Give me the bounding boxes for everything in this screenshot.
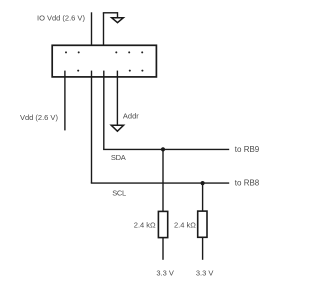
wire pin 4 top to ground xyxy=(103,12,118,52)
wire SDA junction to R1 xyxy=(162,149,164,211)
resistor R2 xyxy=(198,211,207,237)
label 3.3 V left xyxy=(156,269,174,278)
label 2.4 kOhm R1 xyxy=(134,221,156,230)
svg-text:Vdd (2.6 V): Vdd (2.6 V) xyxy=(20,113,58,122)
wire Addr (pin 5 bottom) xyxy=(116,71,118,126)
net label IO Vdd xyxy=(37,13,85,22)
label 2.4 kOhm R2 xyxy=(174,221,196,230)
svg-text:to RB9: to RB9 xyxy=(235,145,260,154)
resistor R1 xyxy=(158,211,167,237)
svg-text:to RB8: to RB8 xyxy=(235,179,260,188)
svg-text:2.4 kΩ: 2.4 kΩ xyxy=(134,221,156,230)
node SCL junction xyxy=(201,181,205,185)
svg-text:2.4 kΩ: 2.4 kΩ xyxy=(174,221,196,230)
label 3.3 V right xyxy=(196,269,214,278)
node SDA junction xyxy=(161,147,165,151)
svg-text:SDA: SDA xyxy=(111,153,126,162)
svg-text:SCL: SCL xyxy=(112,188,126,197)
ground (top, open triangle) xyxy=(112,18,124,23)
wire R1 to 3.3V xyxy=(162,238,164,260)
wire R2 to 3.3V xyxy=(202,237,204,259)
label to RB9 xyxy=(235,145,260,154)
pin dots top row xyxy=(65,51,143,53)
wire IO Vdd to pin 3 top xyxy=(91,12,93,52)
pin dots bottom row xyxy=(77,70,143,72)
net label Vdd xyxy=(20,113,58,122)
wire SDA net xyxy=(103,71,229,150)
svg-text:IO Vdd (2.6 V): IO Vdd (2.6 V) xyxy=(37,13,85,22)
ground (Addr, open triangle) xyxy=(111,125,123,131)
wire SCL junction to R2 xyxy=(202,183,204,211)
label SCL xyxy=(112,188,126,197)
label SDA xyxy=(111,153,126,162)
IC U1 body xyxy=(52,45,156,77)
wire Vdd stub (pin 1 bottom) xyxy=(64,71,66,131)
label to RB8 xyxy=(235,179,260,188)
svg-text:Addr: Addr xyxy=(123,112,139,121)
svg-text:3.3 V: 3.3 V xyxy=(196,269,214,278)
label Addr xyxy=(123,112,139,121)
wire SCL net xyxy=(91,71,229,184)
svg-text:3.3 V: 3.3 V xyxy=(156,269,174,278)
